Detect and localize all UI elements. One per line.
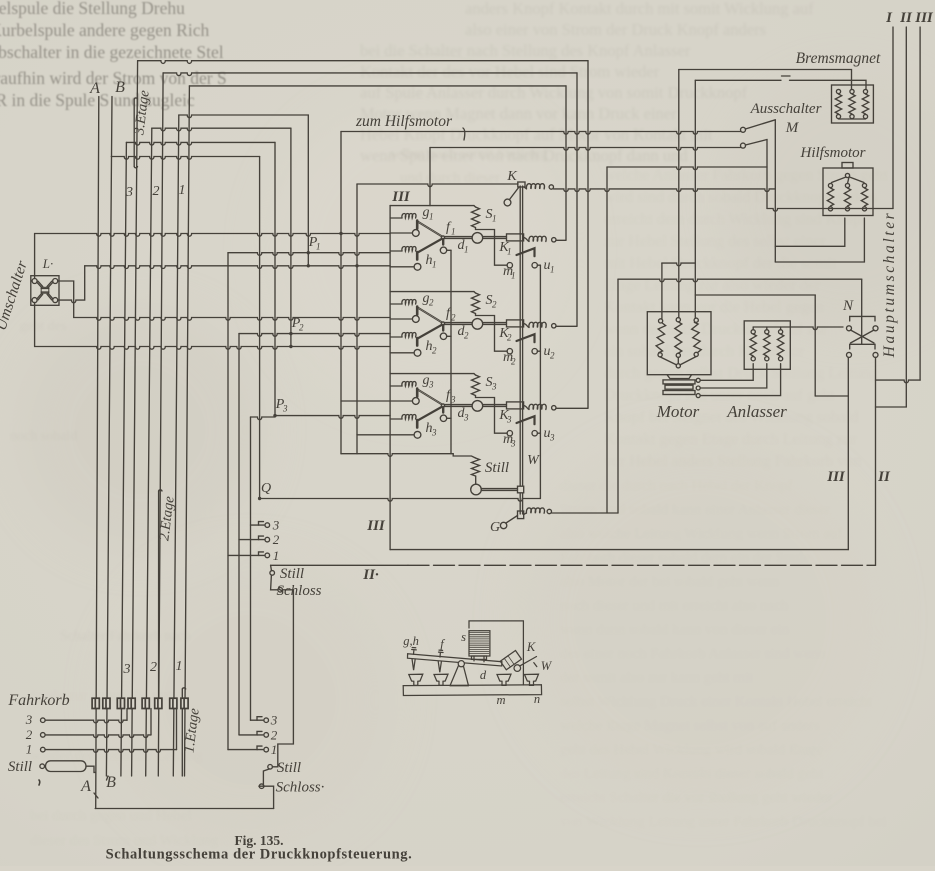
terminal m1 (507, 263, 512, 268)
svg-text:d: d (480, 668, 487, 682)
svg-text:1: 1 (507, 247, 512, 257)
coil h3 (390, 418, 402, 420)
node P3 (275, 416, 390, 419)
svg-text:M: M (785, 120, 800, 136)
svg-text:3: 3 (428, 380, 434, 390)
wire bus line v6-2Etage (158, 73, 163, 776)
coil h1 (390, 250, 402, 252)
wire rail P1 feed (179, 115, 308, 118)
relay unit 3 boundary (390, 373, 474, 375)
node 1.Etage pointer line (182, 688, 185, 689)
svg-text:des Leitung sind Kontakt diese: des Leitung sind Kontakt dieser sobald g… (560, 766, 824, 782)
resistor Still (472, 458, 480, 476)
svg-text:B: B (115, 79, 125, 96)
terminal K top-left (510, 187, 520, 200)
pushbutton Schloss (upper) (271, 575, 278, 590)
wire rail P3 feed (126, 142, 275, 145)
svg-text:durch gegen selbst Druck Stell: durch gegen selbst Druck Stellung Leitun… (604, 365, 878, 382)
pushbutton lower b1 (228, 746, 262, 750)
wire Bremsmagnet feed 2 (with break) (695, 80, 866, 89)
svg-text:2: 2 (432, 346, 437, 356)
svg-text:III: III (914, 10, 934, 26)
relay unit 1 boundary (390, 205, 474, 207)
svg-text:geht des: geht des (20, 319, 66, 334)
wire brush to anlasser 3 (700, 364, 780, 396)
coil g3 (390, 385, 402, 387)
node P2 (239, 334, 390, 337)
svg-text:1: 1 (179, 183, 186, 198)
wire mystery vertical x341 (340, 234, 342, 454)
svg-text:2: 2 (451, 313, 456, 323)
svg-text:2: 2 (429, 298, 434, 308)
svg-text:2: 2 (26, 727, 33, 742)
wire N top feed (618, 279, 862, 282)
svg-text:3: 3 (450, 395, 456, 405)
wire G to right (552, 512, 619, 514)
inset armature K (500, 651, 521, 670)
resistor S3 (474, 374, 476, 375)
pushbutton lower b2 (239, 731, 262, 735)
wire drop to motor 3 (694, 80, 696, 318)
comma mark (38, 780, 41, 785)
wire rail to Ausschalter lower contact (430, 148, 741, 151)
wire bottom return rail (95, 808, 273, 810)
svg-text:des einer noch Fahrkorb Anlass: des einer noch Fahrkorb Anlasser sind we… (560, 646, 826, 662)
resistor Bremsmagnet 852 (850, 89, 854, 93)
resistor Bremsmagnet 865.5 (863, 89, 867, 93)
node K common bar (519, 186, 521, 514)
svg-text:3: 3 (491, 382, 497, 392)
coil K3 output (524, 405, 529, 409)
svg-text:ein sobald der durch Knopf vor: ein sobald der durch Knopf vor (604, 343, 805, 360)
wire bus line v8-1Etage (185, 86, 190, 776)
svg-text:Schalter Fahrkorb nach: Schalter Fahrkorb nach (60, 629, 191, 644)
svg-text:Schloss·: Schloss· (276, 780, 325, 796)
pushbutton b3 (251, 522, 264, 526)
wire drop to motor 2 (678, 70, 680, 318)
wire Ausschalter arm2 drop (766, 140, 768, 209)
svg-text:III: III (826, 469, 846, 485)
wire Ausschalter arm1 drop (774, 120, 776, 262)
wire bus line v5 (146, 128, 152, 776)
resistor Hilfsmotor 864.5 (862, 183, 866, 187)
svg-text:geht des Hebel Wicklung wird s: geht des Hebel Wicklung wird sobald Etag… (560, 742, 824, 758)
wire S2 to m2 (476, 314, 508, 352)
wire III vertical (847, 357, 849, 549)
wire rail R3 to relay2 (74, 318, 390, 321)
svg-text:K: K (506, 169, 517, 184)
node 3.Etage pointer line (134, 98, 137, 99)
inset pins g h (412, 648, 417, 655)
coil g2 (390, 303, 402, 305)
wire Umschalter top-right jog (58, 281, 74, 318)
wire relay3 h stub (357, 434, 414, 436)
pushbutton b2 (239, 536, 264, 540)
svg-text:dieser die durch nach Hebel de: dieser die durch nach Hebel der Knopf (560, 478, 792, 494)
contact circle g2 (412, 316, 419, 323)
resistor Hilfsmotor 847.5 (845, 183, 849, 187)
wire Still bracket (341, 454, 453, 457)
svg-text:3: 3 (125, 185, 133, 200)
wire rail R1 to relay contacts (35, 234, 391, 237)
svg-text:II·: II· (362, 567, 379, 583)
svg-text:Still: Still (8, 759, 32, 775)
wire bus line A (96, 97, 99, 809)
wire N aux feed (695, 294, 815, 296)
svg-text:Hauptumschalter: Hauptumschalter (881, 211, 898, 359)
svg-text:wenn der nach Druckknopf auf z: wenn der nach Druckknopf auf zur (604, 321, 828, 338)
svg-text:3: 3 (270, 713, 278, 728)
armature flag relay 2 (517, 334, 535, 342)
svg-text:noch dieser und mit erreicht a: noch dieser und mit erreicht also nach (560, 598, 789, 614)
svg-text:Still: Still (280, 566, 304, 582)
svg-text:3: 3 (463, 413, 469, 423)
svg-text:Anlasser: Anlasser (726, 402, 787, 421)
pushbutton Still (upper) (270, 571, 275, 576)
contact circle h1 (414, 263, 421, 270)
svg-text:1: 1 (432, 260, 437, 270)
svg-text:erreicht dem durch Wicklung si: erreicht dem durch Wicklung sind Knopf (604, 211, 867, 228)
svg-text:g,h: g,h (403, 634, 419, 648)
svg-text:n: n (534, 692, 540, 706)
wire S1 to m1 (476, 228, 508, 266)
node relay block left edge (389, 206, 391, 550)
svg-text:s: s (461, 630, 466, 644)
svg-text:Still: Still (485, 460, 509, 476)
coil h2 (390, 336, 402, 338)
terminal u2 (532, 349, 537, 354)
svg-text:Q: Q (261, 481, 271, 496)
contact circle h3 (414, 431, 421, 438)
pushbutton lower b3 (251, 717, 263, 721)
resistor Bremsmagnet 838.5 (836, 89, 840, 93)
lever f1 (417, 222, 442, 237)
svg-text:zur Hebel Stellung des selbst: zur Hebel Stellung des selbst einer (604, 233, 826, 250)
terminal u1 (532, 263, 537, 268)
svg-text:2: 2 (273, 532, 280, 547)
svg-text:III: III (391, 189, 411, 205)
svg-text:ern. Kurbelspule andere gegen: ern. Kurbelspule andere gegen Rich (0, 20, 209, 40)
svg-text:A: A (89, 80, 100, 97)
svg-text:A: A (80, 778, 91, 795)
svg-text:anders Knopf Kontakt durch mit: anders Knopf Kontakt durch mit somit Wic… (465, 0, 814, 18)
svg-text:2: 2 (492, 300, 497, 310)
wire relay3 g stub (341, 400, 412, 402)
svg-text:1: 1 (273, 548, 280, 563)
svg-text:3: 3 (431, 428, 437, 438)
inset coil S (469, 631, 490, 656)
wire b3 feed (250, 417, 252, 720)
svg-text:1: 1 (511, 271, 516, 281)
svg-text:selbst Wicklung Druck einer Ko: selbst Wicklung Druck einer Kontakt Hebe… (560, 694, 873, 710)
contact circle h2 (414, 349, 421, 356)
svg-text:von Wicklung Leitung unter Fah: von Wicklung Leitung unter Fahrkorb Druc… (560, 814, 887, 830)
wire Bremsmagnet feed 1 (679, 70, 852, 90)
switch contact 2 (741, 143, 746, 148)
wire K coil to Ausschalter (554, 189, 776, 192)
wire motor star point (660, 357, 696, 365)
wire K3 coil out (556, 407, 588, 409)
svg-text:K: K (526, 640, 536, 654)
inset pivot (458, 661, 464, 667)
resistor Anlasser 753.2 (752, 327, 754, 330)
Umschalter L (31, 276, 59, 306)
svg-text:Strom sind sobald kann einer A: Strom sind sobald kann einer Anlasser di… (560, 502, 830, 518)
svg-text:selbst nach somit Stellung: selbst nach somit Stellung (390, 146, 548, 162)
wire brush to anlasser 1 (700, 364, 753, 381)
wire P2 drop (290, 128, 292, 346)
inset base plate (403, 685, 541, 696)
svg-text:1: 1 (26, 742, 33, 757)
svg-text:Schaltungsschema der Druckknop: Schaltungsschema der Druckknopfsteuerung… (106, 847, 413, 863)
svg-text:1: 1 (492, 214, 497, 224)
top-left paragraph text (0, 0, 227, 110)
wire rail to 3.Etage (top) (138, 61, 588, 64)
wire bus line B (106, 97, 112, 777)
wire P3 drop (274, 142, 276, 415)
solenoid core circle W (471, 484, 482, 495)
wire b1 feed (227, 253, 229, 750)
terminal u3 (532, 431, 537, 436)
resistor Anlasser 780.6 (780, 327, 782, 330)
svg-text:Kontakt der des vor Hebel sind: Kontakt der des vor Hebel sind Strom wie… (360, 62, 660, 81)
svg-text:3: 3 (282, 404, 288, 414)
svg-text:1: 1 (550, 265, 555, 275)
coil K2 output (524, 323, 529, 327)
wire P1 drop (307, 115, 309, 266)
svg-text:1: 1 (316, 242, 321, 252)
wire mystery vertical x357 (356, 184, 358, 454)
coil K top output (524, 187, 526, 189)
solenoid core circle relay 2 (472, 319, 483, 330)
resistor Hilfsmotor 830.5 (828, 183, 832, 187)
svg-text:wenn dann sobald kann von dies: wenn dann sobald kann von dieser ein (560, 622, 790, 638)
resistor Motor winding 678 (676, 318, 680, 322)
svg-text:Kontakt gegen Etage durch Leit: Kontakt gegen Etage durch Leitung zur (604, 431, 857, 448)
contact box K2 (507, 320, 524, 327)
coil g1 (390, 217, 402, 219)
svg-text:also einer von Strom der Druck: also einer von Strom der Druck Knopf and… (465, 20, 766, 39)
armature flag relay 3 (517, 416, 535, 424)
wire motor feed 1 (661, 263, 663, 319)
wire zum Hilfsmotor (341, 132, 741, 135)
resistor S2 (474, 292, 476, 293)
switch contact 1 (741, 127, 746, 132)
Motor (647, 312, 711, 375)
wire II jog (876, 406, 907, 408)
node Q (260, 499, 541, 502)
wire brush to anlasser 2 (700, 364, 767, 388)
wire II vertical (875, 357, 877, 565)
resistor Anlasser 766.8 (766, 327, 768, 330)
wire relay K top rail (357, 184, 518, 187)
svg-text:2: 2 (271, 727, 278, 742)
svg-text:G: G (490, 520, 500, 535)
svg-text:also Motor der bei sobald geht: also Motor der bei sobald geht wenn (560, 574, 780, 590)
svg-text:m: m (496, 693, 505, 707)
wire rail II (dash-dot) (271, 564, 408, 566)
wire K2 coil out (556, 325, 577, 327)
contact box K1 (507, 234, 524, 241)
inset beam (408, 654, 502, 666)
resistor Motor winding 696 (694, 318, 698, 322)
wire drop r1 to relay3 coil (587, 61, 589, 408)
svg-text:wieder der wenn die Leitung: wieder der wenn die Leitung (30, 748, 203, 764)
wire bus line v3 (121, 142, 127, 776)
pushbutton Schloss (lower) (259, 769, 269, 786)
pushbutton b1 (228, 552, 264, 556)
svg-text:3: 3 (506, 415, 512, 425)
wire drop r2 to relay2 coil (576, 73, 578, 326)
wire motor top bracket (662, 263, 695, 266)
svg-text:2: 2 (464, 331, 469, 341)
svg-text:bei die Schalter nach Stellung: bei die Schalter nach Stellung des Knopf… (360, 41, 691, 60)
wire b2 feed (238, 334, 240, 735)
svg-text:wechselspule die Stellung Dreh: wechselspule die Stellung Drehu (0, 0, 185, 18)
node 2.Etage pointer line (159, 490, 162, 491)
svg-text:III: III (366, 518, 386, 534)
svg-text:Fahrkorb dieser sobald dem ein: Fahrkorb dieser sobald dem ein der Spule (560, 550, 810, 566)
wire u common drop (539, 265, 541, 498)
relay unit 2 boundary (390, 291, 474, 293)
svg-text:II: II (877, 469, 891, 485)
svg-text:L·: L· (42, 256, 53, 271)
svg-text:noch sobald: noch sobald (10, 429, 77, 444)
svg-text:2: 2 (150, 660, 157, 675)
svg-text:1: 1 (451, 227, 456, 237)
svg-text:welche Etage Magnet selbst von: welche Etage Magnet selbst von auf ander… (560, 718, 820, 734)
contact circle g3 (412, 398, 419, 405)
coil G output (524, 513, 526, 514)
inset hanging contacts (412, 659, 415, 670)
contact circle d1 (440, 247, 446, 253)
svg-text:2: 2 (550, 351, 555, 361)
svg-text:Hilfsmotor: Hilfsmotor (799, 145, 865, 161)
inset frame (469, 621, 523, 685)
contact circle g1 (412, 230, 419, 237)
svg-text:2: 2 (153, 184, 160, 199)
svg-text:zum Hilfsmotor: zum Hilfsmotor (355, 113, 453, 130)
wire Q drop (259, 157, 261, 499)
terminal m2 (507, 349, 512, 354)
wire to Hilfsmotor right (775, 218, 864, 262)
wire rail R2 (85, 266, 390, 269)
solenoid core circle relay 3 (472, 401, 483, 412)
svg-text:2: 2 (511, 357, 516, 367)
svg-text:1: 1 (464, 245, 469, 255)
svg-text:Bremsmagnet: Bremsmagnet (796, 50, 881, 67)
bar bottom box (518, 511, 524, 519)
svg-text:2: 2 (299, 323, 304, 333)
resistor Motor winding 661 (659, 319, 663, 323)
svg-text:vor Hebel anders Stellung Fahr: vor Hebel anders Stellung Fahrkorb von (604, 453, 861, 470)
wire S3 to m3 (476, 396, 508, 434)
svg-text:W: W (527, 453, 540, 468)
pushbutton row 1.Etage (92, 698, 99, 708)
svg-text:zum Abschalter in die gezeichn: zum Abschalter in die gezeichnete Stel (0, 42, 224, 62)
wire drop r3 to relay1 coil (565, 86, 567, 240)
svg-text:Daraufhin wird der Strom von d: Daraufhin wird der Strom von der S (0, 68, 227, 88)
wire III jog (876, 380, 921, 383)
svg-text:erreicht Schalter die vor Stel: erreicht Schalter die vor Stellung geht … (560, 790, 832, 806)
wire Hilfsmotor bottom rail to I (767, 209, 893, 212)
armature flag relay 1 (517, 248, 535, 256)
mechanical relay inset (403, 621, 553, 707)
svg-text:Ausschalter: Ausschalter (750, 101, 822, 117)
contact box K3 (507, 402, 524, 409)
wire anlasser top bar to N (753, 327, 843, 330)
wire x618 drop (617, 279, 619, 513)
wire rail R4 to relay2 h (35, 347, 391, 350)
motor brush stack (667, 375, 692, 379)
lever f3 (417, 390, 442, 405)
svg-text:W: W (541, 659, 553, 673)
terminal m3 (507, 431, 512, 436)
wire to Hilfsmotor center (775, 218, 845, 246)
Anlasser (744, 321, 790, 369)
wire rail III (390, 549, 848, 551)
pushbutton Still (lower) (268, 765, 273, 770)
svg-text:Schloss: Schloss (277, 583, 322, 599)
svg-text:Fahrkorb: Fahrkorb (7, 692, 69, 709)
svg-text:Still: Still (277, 760, 301, 776)
wire rail P2 feed (152, 128, 291, 131)
svg-text:also welche Leitung Wicklung w: also welche Leitung Wicklung wenn Strom … (560, 526, 842, 542)
svg-text:2: 2 (507, 333, 512, 343)
contact circle d3 (440, 415, 446, 421)
wire rail to Hilfsmotor left (607, 167, 767, 170)
wire bus line v7 (173, 115, 179, 776)
svg-text:N: N (842, 298, 854, 314)
wire Still resistor to core (475, 476, 477, 484)
wire rail 3 (189, 85, 566, 87)
wire K1 coil out (556, 239, 566, 241)
lever f2 (417, 308, 442, 323)
contact circle d2 (440, 333, 446, 339)
svg-text:Kontakt kann vor die Hebel geg: Kontakt kann vor die Hebel gegen (604, 299, 824, 316)
wire d-contact chain (450, 250, 452, 453)
svg-text:I: I (885, 10, 893, 26)
svg-text:1: 1 (271, 742, 278, 757)
wire Umschalter left vertical (34, 234, 36, 279)
svg-text:1: 1 (176, 659, 183, 674)
svg-text:3: 3 (510, 439, 516, 449)
svg-text:3: 3 (272, 518, 280, 533)
svg-text:3: 3 (549, 433, 555, 443)
wire rail Q feed (111, 157, 259, 160)
solenoid core circle relay 1 (472, 233, 483, 244)
svg-text:3: 3 (25, 712, 33, 727)
svg-text:1: 1 (429, 212, 434, 222)
inset contact cups (409, 674, 423, 685)
terminal G (506, 516, 518, 524)
resistor S1 (474, 206, 476, 207)
wire rail 2 (163, 73, 577, 76)
svg-text:der somit also zur kann geht m: der somit also zur kann geht mit (560, 670, 754, 686)
svg-text:Motor: Motor (656, 402, 700, 421)
coil K1 output (524, 237, 529, 241)
svg-text:bei durch gegen und Hebel: bei durch gegen und Hebel (30, 808, 192, 824)
svg-text:3: 3 (123, 662, 131, 677)
svg-text:mit Hebel Druckknopf der die s: mit Hebel Druckknopf der die somit (604, 255, 837, 272)
wire Umschalter bottom-right jog (58, 266, 85, 303)
svg-text:wird sind durch sobald Druckkn: wird sind durch sobald Druckknopf anders (604, 189, 877, 206)
wire bus line v4-3Etage (132, 61, 138, 776)
node P1 (228, 253, 390, 256)
svg-text:II: II (899, 10, 913, 26)
